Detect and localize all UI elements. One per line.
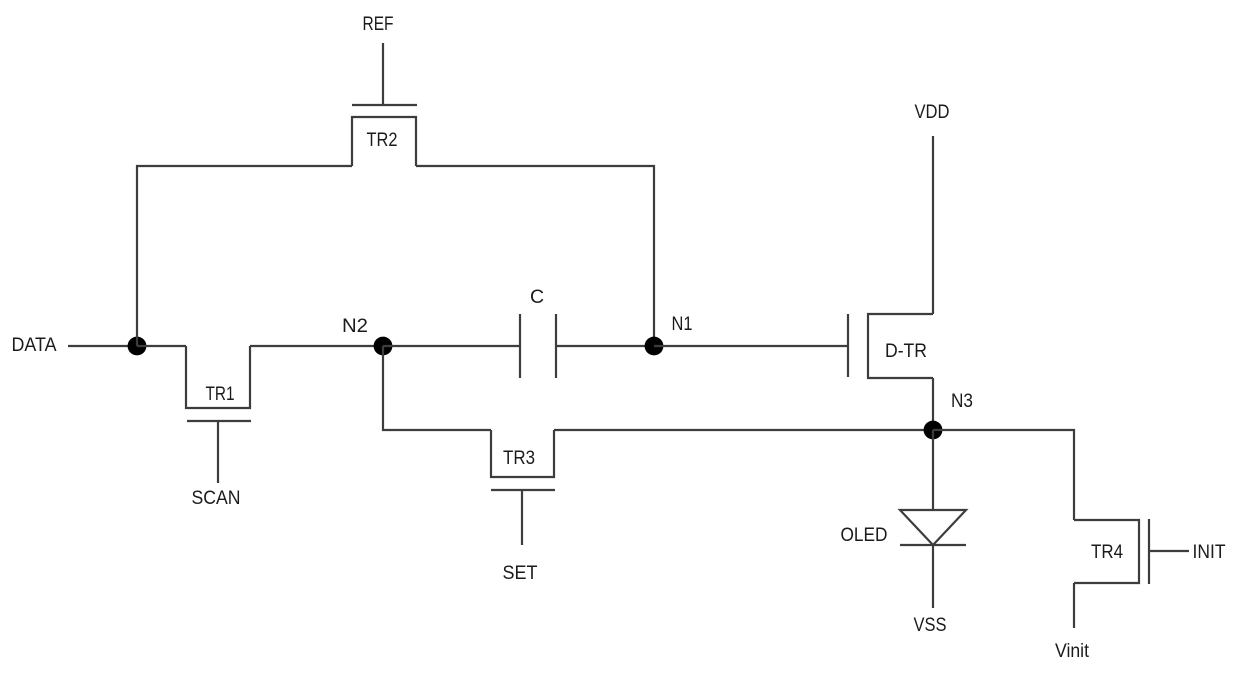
- svg-text:TR4: TR4: [1091, 541, 1123, 563]
- wire N2 riser to row B: [383, 346, 491, 430]
- svg-text:Vinit: Vinit: [1055, 640, 1090, 662]
- transistor TR1 body: [186, 346, 250, 408]
- node N2: [374, 337, 393, 356]
- wire DATA lead: [68, 345, 137, 347]
- transistor TR3 body: [491, 430, 554, 477]
- svg-text:VSS: VSS: [914, 614, 947, 636]
- transistor D-TR body: [868, 314, 933, 378]
- wire N3 to TR4: [933, 430, 1074, 520]
- transistor TR1 gate bar: [187, 420, 251, 422]
- svg-text:D-TR: D-TR: [885, 340, 927, 362]
- svg-text:TR3: TR3: [503, 447, 535, 469]
- svg-text:DATA: DATA: [12, 334, 57, 356]
- wire VDD lead: [932, 136, 934, 314]
- svg-text:SCAN: SCAN: [192, 487, 241, 509]
- node N3: [924, 421, 943, 440]
- wire TR4 to Vinit: [1073, 583, 1075, 628]
- wire TR3 gate stem: [521, 490, 523, 545]
- wire N3 to OLED anode: [932, 430, 934, 510]
- transistor TR2 gate bar: [352, 104, 417, 106]
- svg-text:TR1: TR1: [206, 383, 235, 405]
- svg-text:C: C: [530, 286, 544, 308]
- svg-text:N2: N2: [342, 315, 368, 337]
- transistor TR4 gate bar: [1148, 519, 1150, 584]
- wire N1 to D-TR gate: [654, 345, 848, 347]
- svg-text:OLED: OLED: [841, 524, 888, 546]
- wire TR4 gate lead: [1149, 550, 1189, 552]
- svg-text:N1: N1: [672, 313, 693, 335]
- node N1: [645, 337, 664, 356]
- node DATA junction: [128, 337, 147, 356]
- svg-text:REF: REF: [363, 13, 394, 35]
- wire N2 to capacitor: [383, 345, 520, 347]
- wire OLED cathode to VSS: [932, 545, 934, 608]
- diode OLED cathode bar: [900, 544, 966, 546]
- diode OLED triangle: [900, 510, 966, 545]
- wire top rail right segment: [416, 166, 654, 346]
- capacitor C left plate: [519, 314, 521, 378]
- wire D-TR source to N3: [932, 378, 934, 430]
- capacitor C right plate: [555, 314, 557, 378]
- transistor D-TR gate bar: [847, 314, 849, 377]
- transistor TR2 body: [352, 117, 416, 166]
- wire TR3 to N3: [554, 429, 933, 431]
- wire capacitor to N1: [556, 345, 654, 347]
- wire TR1 gate stem: [217, 421, 219, 483]
- svg-text:SET: SET: [503, 562, 538, 584]
- svg-text:TR2: TR2: [367, 129, 398, 151]
- svg-text:N3: N3: [951, 390, 973, 412]
- svg-text:VDD: VDD: [915, 101, 950, 123]
- transistor TR4 body: [1074, 520, 1139, 583]
- wire TR1 to N2: [250, 345, 383, 347]
- wire left riser to top rail: [137, 166, 352, 346]
- wire TR2 gate stem: [382, 43, 384, 105]
- svg-text:INIT: INIT: [1193, 541, 1226, 563]
- transistor TR3 gate bar: [491, 489, 555, 491]
- wire DATA node to TR1: [137, 345, 186, 347]
